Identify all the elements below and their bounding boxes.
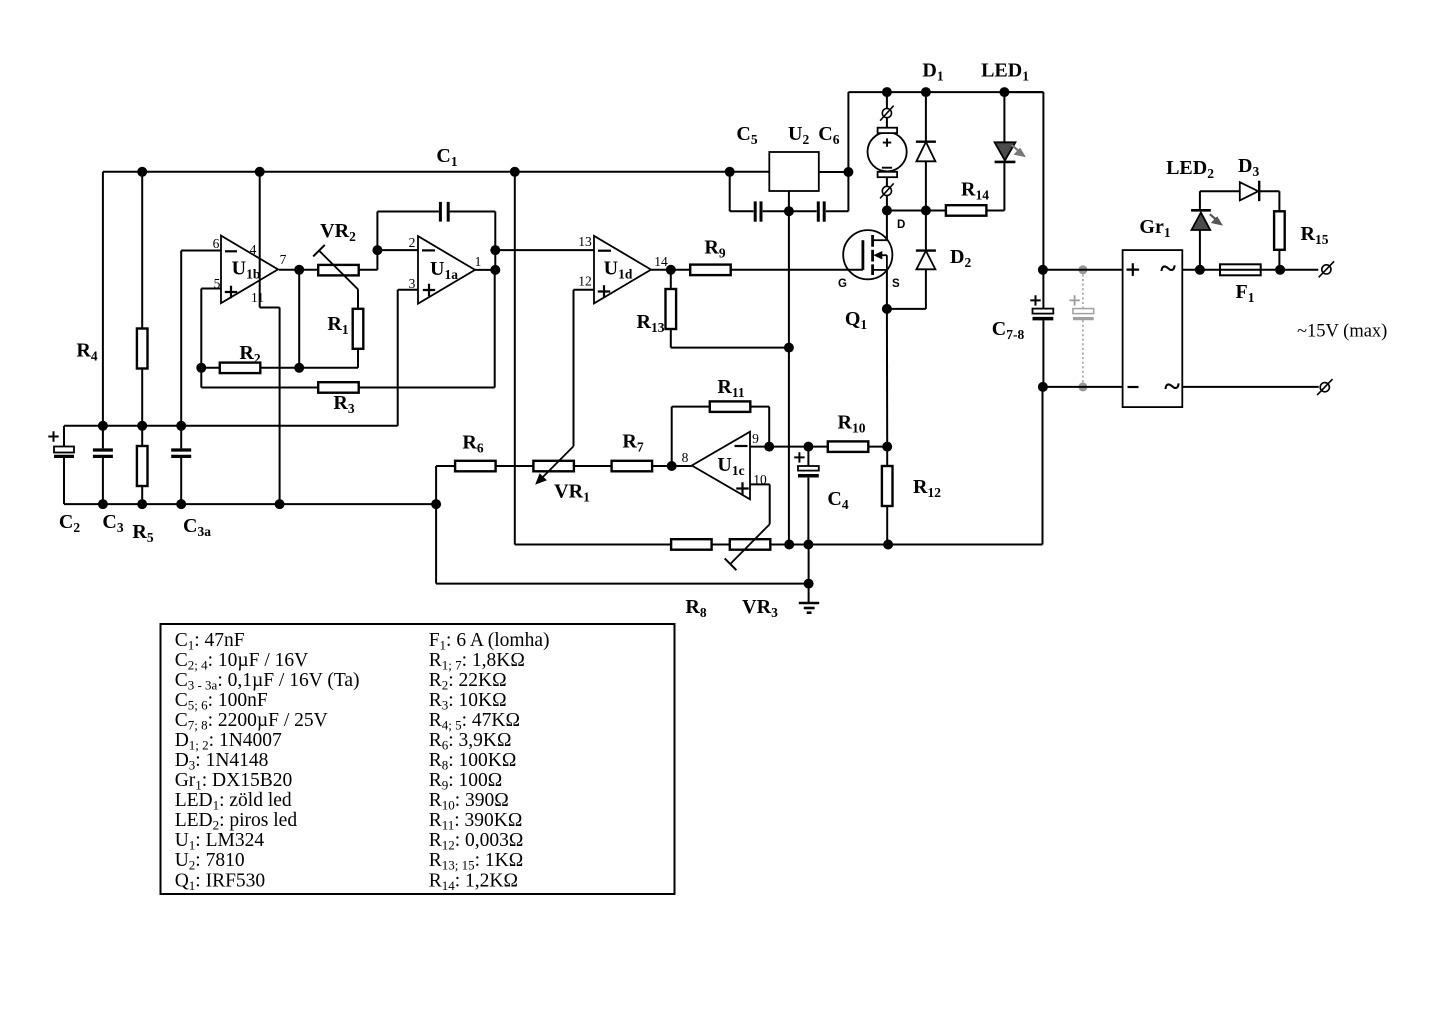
motor branch top connector: [880, 92, 894, 128]
svg-text:~15V (max): ~15V (max): [1297, 322, 1387, 342]
node positive DC rail junction: [1038, 265, 1048, 275]
node U1a output junction: [490, 265, 500, 275]
wire C6 branch: [789, 92, 849, 211]
led LED1 branch: [1003, 92, 1005, 210]
resistor R5: [137, 446, 148, 486]
svg-text:LED1: LED1: [981, 60, 1029, 84]
resistor R11 body: [710, 401, 751, 412]
op-amp U1a: [418, 236, 475, 304]
node U2 ground junction: [784, 206, 794, 216]
resistor R9: [690, 265, 731, 276]
svg-text:9: 9: [752, 431, 759, 446]
capacitor C3: [93, 450, 113, 456]
capacitor C7-8 plus sign: [1030, 295, 1040, 305]
wire VR1 to R7: [574, 465, 612, 467]
wire R6 to VR1: [495, 465, 533, 467]
ground symbol: [799, 603, 819, 613]
svg-text:12: 12: [578, 274, 592, 289]
bridge Gr1 minus sign: [1128, 386, 1139, 388]
node ground rail junction a: [98, 499, 108, 509]
terminal output top: [1319, 261, 1334, 277]
op-amp U1c plus sign: [736, 482, 748, 494]
wire ground-side rail: [64, 503, 436, 505]
component value table box: [161, 624, 675, 894]
node D1 bottom / D2 top junction: [921, 206, 931, 216]
svg-text:14: 14: [654, 254, 668, 269]
wire R3 row: [201, 270, 494, 388]
wire U2 ground vertical down to bottom rail: [788, 211, 790, 544]
terminal output bottom: [1317, 379, 1332, 395]
wire R2 row: [201, 367, 358, 369]
resistor R7: [612, 461, 653, 472]
node VR3 / U2 ground junction: [784, 540, 794, 550]
diode D1 branch: [925, 92, 927, 210]
wire U1a output vertical to R3: [494, 250, 496, 270]
led LED2: [1191, 210, 1211, 230]
wire U2 output to C6 node: [819, 171, 849, 173]
wire U1d pin12 input branch to VR1 wiper: [574, 290, 595, 446]
transistor Q1 source wire: [886, 270, 888, 309]
wire ground stem: [808, 545, 810, 603]
node C4 bottom junction: [803, 540, 813, 550]
wire R14 to LED1 bottom: [986, 210, 1004, 212]
svg-text:1: 1: [475, 254, 482, 269]
node C1 rail / R4 branch junction: [137, 167, 147, 177]
wire D3 to R15: [1259, 191, 1279, 211]
node negative DC rail junction: [1038, 382, 1048, 392]
resistor R12: [882, 466, 893, 506]
diode D2 branch: [887, 211, 926, 309]
capacitor C6: [818, 201, 824, 221]
capacitor C5: [755, 201, 761, 221]
node LED2 branch junction: [1195, 265, 1205, 275]
wire U1a output: [475, 269, 495, 271]
op-amp U1c mirrored: [692, 432, 750, 500]
diode D3: [1240, 181, 1259, 201]
wire U1b output down to R2 row: [298, 270, 300, 368]
wire C5 branch: [730, 172, 789, 211]
node R2 left junction: [196, 363, 206, 373]
op-amp U1b plus sign: [225, 286, 237, 298]
wire R15 down to output node: [1278, 250, 1280, 270]
node R10 right junction: [882, 442, 892, 452]
op-amp U1b minus sign: [225, 250, 237, 252]
wire U1d output: [651, 269, 691, 271]
svg-text:3: 3: [409, 276, 416, 291]
node ground rail junction e: [431, 499, 441, 509]
node R15 bottom junction: [1275, 265, 1285, 275]
op-amp U1d minus sign: [598, 250, 611, 252]
ghost node bottom gray: [1078, 382, 1087, 391]
wire left lower rail: [64, 425, 398, 427]
svg-text:6: 6: [213, 236, 220, 251]
capacitor C2 plus sign: [48, 431, 58, 441]
wire bottom feedback rail R8 VR3: [671, 387, 1042, 545]
wire U1a pin3 input branch: [398, 290, 418, 426]
wire U1a feedback loop: [377, 212, 495, 251]
node motor bottom / drain junction: [882, 206, 892, 216]
wire U1b pin4/pin11 supply through symbol: [260, 172, 280, 504]
transistor Q1 mosfet: [843, 230, 892, 279]
potentiometer VR3 body: [730, 539, 771, 550]
node motor top junction: [882, 87, 892, 97]
potentiometer VR2 body: [318, 265, 359, 276]
node ground rail junction d: [275, 499, 285, 509]
capacitor C4 branch: [807, 447, 809, 545]
node ground stem junction: [804, 579, 814, 589]
svg-text:11: 11: [251, 290, 264, 305]
wire R4 R5 branch vertical segments: [141, 172, 143, 504]
node U2 output junction: [843, 167, 853, 177]
resistor R14: [946, 205, 987, 216]
potentiometer VR1 wiper arrow: [535, 446, 573, 484]
resistor R2: [220, 363, 260, 374]
svg-text:D: D: [897, 219, 905, 231]
resistor R12 branch: [886, 447, 888, 545]
node U1a pin2 junction: [372, 245, 382, 255]
potentiometer VR3 wiper arm: [725, 524, 770, 570]
wire R8 return rail: [436, 583, 808, 585]
node ground rail junction b: [137, 499, 147, 509]
svg-text:LED2: LED2: [1166, 157, 1214, 181]
bridge rectifier Gr1 box: [1123, 250, 1183, 407]
op-amp U1a minus sign: [422, 249, 435, 251]
wire R9 to Q1 gate: [731, 269, 863, 271]
svg-text:8: 8: [682, 450, 689, 465]
resistor R10: [828, 441, 869, 452]
diode D2: [916, 251, 936, 270]
potentiometer VR1 body: [533, 461, 574, 472]
wire negative rail to bridge: [1043, 386, 1123, 388]
wire positive rail to bridge: [1043, 269, 1123, 271]
ghost node top gray: [1078, 265, 1087, 274]
wire R7 to U1c pin8: [652, 465, 692, 467]
capacitor C3a: [171, 426, 191, 504]
node D1 top junction: [921, 87, 931, 97]
capacitor C2 branch wires: [63, 426, 65, 504]
fuse F1: [1220, 264, 1261, 275]
resistor R1: [353, 309, 364, 349]
op-amp U1b: [221, 236, 278, 304]
wire LED1 column down to C7 rail: [1004, 92, 1043, 387]
motor branch bottom connector: [880, 177, 894, 210]
resistor R4: [137, 329, 148, 369]
svg-text:13: 13: [578, 234, 592, 249]
svg-text:2: 2: [409, 235, 416, 250]
wire U1a pin2 input: [377, 249, 418, 251]
capacitor C1 feedback symbol: [440, 202, 448, 222]
wire bridge AC out bottom: [1182, 386, 1318, 388]
motor M1: [868, 128, 907, 178]
wire U2 input rail segment: [730, 171, 770, 173]
node pin9 / C4 junction: [803, 442, 813, 452]
node R2 right junction: [294, 363, 304, 373]
wire bridge AC out top: [1182, 269, 1318, 271]
resistor R3: [318, 382, 359, 393]
wire VR2 wiper to R1 top: [357, 289, 359, 308]
node C1 rail / main mid vertical junction: [510, 167, 520, 177]
node U1c pin8 junction: [667, 461, 677, 471]
wire main mid vertical from C1 rail to bottom rail: [515, 172, 672, 545]
node C1 rail / U2 input junction: [725, 167, 735, 177]
node C1 rail / U1b pin4 branch junction: [255, 167, 265, 177]
node source row junction: [882, 304, 892, 314]
svg-text:4: 4: [250, 242, 257, 257]
wire top supply rail C1 net: [103, 171, 730, 173]
wire source down to R10 node: [886, 309, 888, 447]
svg-text:~: ~: [1164, 370, 1180, 403]
wire left branch vertical from C1 rail: [102, 172, 104, 504]
op-amp U1c minus sign: [735, 445, 748, 447]
capacitor C4 plus sign: [794, 452, 804, 462]
svg-text:Q1: IRF530: Q1: IRF530: [175, 870, 265, 893]
node U1d output junction: [666, 265, 676, 275]
node ground rail junction c: [176, 499, 186, 509]
node U1a output feedback junction: [490, 245, 500, 255]
node R13 / U2 ground junction: [784, 343, 794, 353]
svg-text:S: S: [892, 278, 900, 290]
resistor R6: [455, 461, 496, 472]
capacitor C2: [54, 447, 74, 457]
op-amp U1d: [594, 236, 651, 304]
wire R6 input branch: [436, 466, 456, 584]
node lower rail junction a: [98, 421, 108, 431]
transistor Q1 drain wire: [886, 211, 888, 241]
op-amp U1d plus sign: [598, 285, 610, 297]
diode D1: [916, 142, 936, 162]
svg-text:~: ~: [1160, 252, 1176, 285]
node lower rail junction b: [137, 421, 147, 431]
node lower rail junction c: [176, 421, 186, 431]
resistor R15: [1274, 211, 1285, 250]
svg-text:5: 5: [214, 276, 221, 291]
capacitor C4: [798, 466, 819, 476]
wire top positive rail: [848, 91, 1043, 93]
wire U1b pin5 input branch: [201, 289, 221, 388]
led LED2 emission arrow: [1210, 214, 1223, 225]
wire U2 ground pin: [788, 191, 790, 211]
wire U1c pin9 row: [750, 446, 887, 448]
node pin9 / R11 junction: [764, 442, 774, 452]
svg-text:7: 7: [280, 252, 287, 267]
wire U1b output pin7 to VR2: [279, 269, 318, 271]
wire U1b pin6 input from R5 rail: [181, 251, 221, 426]
node LED1 top junction: [999, 87, 1009, 97]
led LED1: [995, 142, 1016, 162]
resistor R8: [671, 539, 712, 550]
led LED1 emission arrow: [1012, 145, 1026, 157]
node R12 bottom junction: [883, 540, 893, 550]
wire R13 branch: [671, 270, 789, 348]
node U1b output junction: [294, 265, 304, 275]
capacitor C7-8: [1033, 309, 1054, 319]
bridge Gr1 plus sign: [1127, 263, 1140, 276]
resistor R11 feedback: [672, 407, 770, 466]
wire U1c pin10 branch to VR3 wiper: [750, 484, 770, 524]
wire D node row to R14: [887, 210, 946, 212]
wire VR2 right terminal up to U1a pin2 node: [359, 250, 378, 270]
wire U1d pin13 input: [495, 249, 594, 251]
led LED2 branch wire: [1200, 191, 1240, 270]
wire R1 bottom to R2 row: [357, 349, 359, 368]
resistor R13: [666, 289, 677, 329]
potentiometer VR2 wiper arm: [313, 245, 358, 289]
ghost capacitor C8 dashed branch: [1069, 270, 1093, 387]
voltage regulator U2 box: [769, 152, 819, 191]
op-amp U1a plus sign: [423, 284, 435, 296]
svg-text:G: G: [838, 278, 847, 290]
